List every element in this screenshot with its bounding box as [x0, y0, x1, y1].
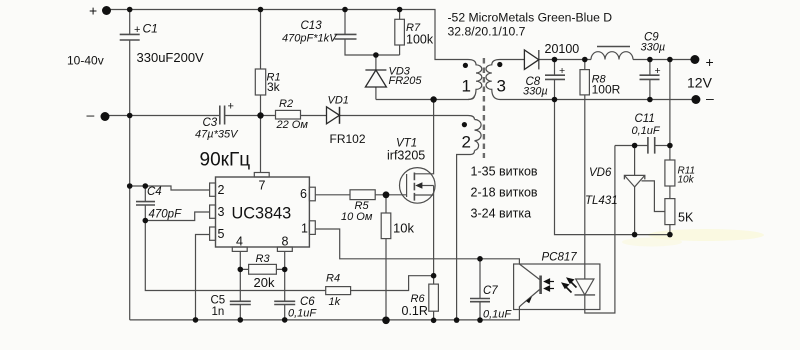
svg-text:8: 8 [282, 235, 289, 249]
svg-text:5: 5 [218, 227, 225, 241]
svg-text:irf3205: irf3205 [387, 149, 425, 163]
svg-text:10-40v: 10-40v [67, 54, 104, 68]
svg-text:+: + [89, 3, 97, 19]
svg-text:+: + [134, 24, 140, 36]
svg-text:1: 1 [301, 222, 308, 236]
svg-text:2: 2 [462, 133, 471, 152]
svg-text:1: 1 [462, 77, 471, 96]
svg-text:FR205: FR205 [389, 75, 423, 87]
svg-text:C6: C6 [300, 296, 315, 308]
svg-text:FR102: FR102 [330, 132, 366, 146]
svg-text:2: 2 [218, 183, 225, 197]
svg-text:R3: R3 [256, 253, 271, 265]
svg-text:330uF200V: 330uF200V [137, 50, 205, 65]
svg-text:+: + [655, 65, 661, 77]
svg-text:1n: 1n [212, 306, 225, 318]
svg-text:6: 6 [300, 187, 307, 201]
svg-text:5K: 5K [678, 211, 694, 225]
svg-text:+: + [706, 54, 714, 70]
svg-text:0.1R: 0.1R [402, 304, 428, 318]
svg-text:C5: C5 [211, 295, 226, 307]
svg-text:R4: R4 [326, 273, 340, 285]
svg-text:C13: C13 [301, 20, 323, 32]
svg-text:100k: 100k [406, 33, 434, 47]
svg-text:47µ*35V: 47µ*35V [195, 129, 239, 141]
svg-text:10k: 10k [678, 175, 695, 186]
svg-text:330µ: 330µ [523, 86, 548, 98]
svg-text:1k: 1k [329, 296, 341, 308]
svg-text:PC817: PC817 [542, 252, 578, 264]
svg-text:22 Ом: 22 Ом [276, 119, 309, 131]
svg-text:C11: C11 [635, 113, 655, 125]
svg-text:470pF*1kV: 470pF*1kV [282, 33, 338, 45]
svg-text:C7: C7 [483, 285, 498, 297]
svg-text:3k: 3k [267, 80, 281, 94]
svg-text:VD1: VD1 [328, 95, 349, 107]
svg-text:470pF: 470pF [149, 209, 183, 221]
svg-text:VD6: VD6 [589, 167, 612, 179]
svg-text:32.8/20.1/10.7: 32.8/20.1/10.7 [448, 25, 526, 39]
svg-text:90кГц: 90кГц [200, 150, 251, 171]
svg-text:3: 3 [218, 205, 225, 219]
svg-text:20100: 20100 [545, 42, 580, 56]
svg-text:10k: 10k [393, 221, 414, 236]
svg-text:R2: R2 [279, 98, 293, 110]
svg-text:7: 7 [259, 179, 266, 193]
svg-text:10 Ом: 10 Ом [341, 211, 373, 223]
svg-text:TL431: TL431 [585, 195, 618, 207]
svg-text:UC3843: UC3843 [232, 205, 292, 223]
svg-text:C4: C4 [147, 186, 162, 198]
svg-text:100R: 100R [592, 83, 621, 97]
svg-text:C3: C3 [203, 117, 218, 129]
svg-text:0,1uF: 0,1uF [632, 125, 661, 137]
svg-text:0,1uF: 0,1uF [288, 308, 317, 320]
svg-text:0,1uF: 0,1uF [483, 309, 512, 321]
svg-text:+: + [559, 65, 565, 77]
svg-text:3-24 витка: 3-24 витка [471, 207, 532, 221]
svg-text:-52 MicroMetals Green-Blue D: -52 MicroMetals Green-Blue D [448, 11, 613, 25]
svg-text:–: – [87, 107, 95, 123]
svg-text:12V: 12V [687, 75, 713, 91]
svg-text:4: 4 [236, 235, 243, 249]
svg-text:3: 3 [497, 77, 506, 96]
svg-text:C1: C1 [143, 22, 158, 36]
svg-text:330µ: 330µ [641, 42, 666, 54]
svg-text:–: – [706, 90, 714, 106]
svg-text:1-35 витков: 1-35 витков [471, 165, 538, 179]
svg-text:2-18 витков: 2-18 витков [471, 186, 538, 200]
svg-text:20k: 20k [254, 275, 275, 290]
svg-text:+: + [228, 101, 234, 113]
